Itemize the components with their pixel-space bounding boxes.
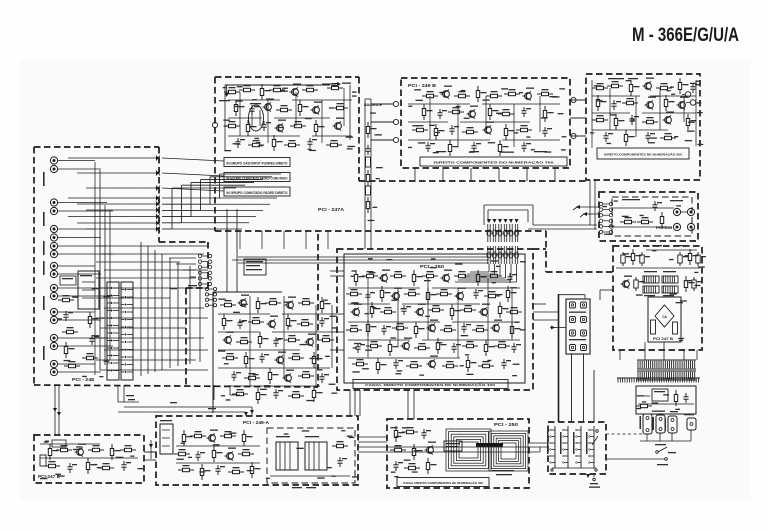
wire G right to M long [358,446,548,448]
annotation mark [496,113,503,114]
component in PCI-249A [212,446,222,462]
component in PCI-250 [442,361,458,368]
wire vertical bus in PCI-248 [177,262,179,366]
annotation mark [396,370,402,371]
annotation mark [674,136,678,137]
component in PCI-247D [56,445,72,452]
component in PCI-250 [366,341,382,348]
component in block C [645,132,655,142]
component in amp cluster [236,337,252,344]
annotation mark [376,167,383,168]
text AUX [43,241,45,255]
annotation mark [76,446,82,447]
annotation mark [319,369,323,370]
boundary crossing arrow [156,214,160,219]
speaker switch board border [548,422,606,474]
switch wafer 2 [560,426,568,468]
component in amp cluster [244,373,260,380]
input RCA jack [50,284,57,291]
annotation mark [352,371,359,372]
component in PCI-247A [290,121,306,128]
component in PCI-250 [460,305,476,312]
switch wafer 3 [573,426,581,468]
wire jack lead [58,363,95,365]
annotation mark [676,302,683,303]
wire cluster to PCI-250 [330,314,344,350]
component in PCI-248 [63,311,73,321]
annotation mark [341,430,345,431]
PCB block PCI-247D border [34,435,144,483]
label PCI-247D [38,474,60,479]
component in PCI-249A [220,431,236,438]
component in PCI-250 [415,304,427,317]
annotation mark [309,150,316,151]
component in amp cluster [238,295,250,308]
wire jack lead [58,245,107,247]
wire below E run1 [124,407,254,416]
component in amp cluster [232,389,248,396]
component in PCI-247D [110,444,120,460]
component in PCI-248 [62,327,78,334]
component in PCI-250 [427,356,439,369]
component in PCI-249A [174,449,190,456]
wire horizontal in PCI-248 [100,287,208,289]
text OUT POWER bottom [589,483,600,488]
fusible resistor FR-904 [662,286,678,296]
RCA jack out R [673,223,680,230]
boundary crossing arrow [156,208,160,213]
annotation mark [558,113,564,114]
annotation mark [544,151,551,152]
switch contact right [592,430,598,445]
component in PCI-247D [67,463,77,473]
PCB boundary notch [159,242,208,385]
annotation mark [663,394,669,395]
annotation mark [348,146,355,147]
connector circle on A left edge [212,122,217,127]
component in amp cluster [231,371,241,381]
component in PCI-249B [462,127,478,134]
annotation mark [99,376,103,377]
component in block C [614,114,624,130]
annotation mark [253,374,259,375]
relay label bar 1 (IN GRUPO ...) [224,158,290,167]
input RCA jack [50,360,57,367]
wire staircase run right [201,209,264,211]
component in amp cluster [268,368,278,384]
svg-text:IN GRUPO CASI INPUT FUORES DIR: IN GRUPO CASI INPUT FUORES DIRETO [227,161,288,165]
selector switch column 2 [121,282,133,380]
annotation mark [680,300,687,301]
wire balance to H [365,225,371,249]
annotation mark [325,356,330,357]
power switch SW-901 [655,444,676,460]
annotation mark [239,321,245,322]
annotation mark [561,149,566,150]
wire horizontal in PCI-248 [104,349,208,351]
component in PCI-248 [82,353,98,360]
wire C internal verticals [592,80,696,148]
component in PCI-247A [248,140,264,147]
annotation mark [309,358,316,359]
label bar PCI-250 (CANAL DIREITO COMPONENTES DE NUMERACAO 400) [353,380,508,389]
label PCI-249A [243,420,269,425]
annotation mark [466,374,473,375]
annotation mark [104,361,110,362]
display window [476,443,503,447]
annotation mark [365,313,370,314]
wire jack lead [58,210,113,212]
annotation mark [92,335,99,336]
wire staircase step [162,185,245,223]
annotation mark [278,127,284,128]
wire jack lead [58,160,95,162]
component in amp cluster [244,352,254,368]
component in block C [656,83,672,90]
annotation mark [698,266,705,267]
component in PCI-247A [314,120,324,136]
PCB block PCI-249B border [401,78,570,168]
annotation mark [300,344,307,345]
wire J top loop [559,295,585,299]
wire vertical bus in PCI-248 [154,250,156,372]
component in PCI-250 [510,322,520,338]
component in PCI-250 [391,288,403,301]
svg-text:IN GRUPO COMUTADO FADED DIRETO: IN GRUPO COMUTADO FADED DIRETO [227,191,288,195]
wire long verticals to cluster [227,209,237,292]
annotation mark [513,364,520,365]
component in amp cluster [320,297,330,313]
component in PCI-247A [290,84,302,97]
annotation mark [492,282,496,283]
wire K bottom drops [620,342,697,360]
wire E to F pair [53,385,61,435]
wire rows in block C [592,88,696,137]
annotation mark [594,85,601,86]
wire M bottom exit [586,474,595,481]
component in block C [624,130,634,146]
wire outlets bus [640,430,691,441]
component in PCI-250 display [390,445,406,452]
wire to bar 2 [162,173,224,176]
wire jack lead [58,202,107,204]
muting option box [244,259,266,275]
component in amp cluster [223,332,235,345]
annotation mark [514,132,518,133]
component in PCI-247D [86,458,96,474]
capacitor in power supply [678,252,688,266]
component in PCI-250 [388,340,398,356]
annotation mark [346,137,353,138]
wire loop to right [528,225,597,229]
annotation mark [648,142,655,143]
annotation mark [97,467,102,468]
annotation mark [64,360,71,361]
component in block C [622,98,638,105]
component in PCI-247A [235,138,245,148]
component in amp cluster [305,334,317,347]
svg-text:PCI - 249-A: PCI - 249-A [243,420,269,425]
component in PCI-250 [451,343,461,353]
annotation mark [395,373,401,374]
annotation mark [327,467,332,468]
component in PCI-247A [269,85,285,92]
annotation mark [284,302,288,303]
dashed corner right of H [533,249,613,272]
component in block C [678,78,688,94]
annotation mark [347,436,353,437]
component in PCI-249A [250,462,260,478]
annotation mark [412,125,419,126]
wire rows PCI-247D [40,444,138,458]
component in PCI-250 [406,361,422,368]
annotation mark [455,263,462,264]
component in PCI-249B [521,107,531,117]
annotation mark [460,365,464,366]
text FONO 1 [43,212,45,226]
component in block C [690,83,700,93]
component in PCI-247A [272,135,282,151]
input RCA jack [50,316,57,323]
component in PCI-249A [200,464,210,480]
svg-text:PCI - 250: PCI - 250 [494,422,519,427]
input RCA jack [50,199,57,206]
annotation mark [696,81,701,82]
volume control box [78,271,99,309]
annotation mark [653,96,660,97]
wire horizontal in PCI-248 [96,359,196,361]
annotation mark [650,137,657,138]
wire jack lead [58,295,113,297]
wire A bottom drops [240,231,328,249]
wire horizontal in PCI-248 [100,253,204,255]
component in amp cluster [319,317,329,327]
wire vertical bus in PCI-248 [199,270,201,362]
input RCA jack [50,250,57,257]
power transformer primary [637,360,696,369]
component in PCI-249B [441,86,453,99]
annotation mark [247,470,253,471]
component in PCI-250 [473,289,483,299]
annotation mark [317,477,324,478]
input RCA jack [50,207,57,214]
annotation mark [223,120,230,121]
component in amp cluster [267,316,279,329]
component in amp cluster [286,314,296,330]
wire horizontal in PCI-248 [104,269,208,271]
annotation mark [254,138,259,139]
annotation mark [439,92,444,93]
wire rows in PCI-247A [228,88,352,143]
component in block C [592,115,608,122]
component in PCI-249B [486,91,502,98]
component in amp cluster [298,371,314,378]
component in PCI-250 [414,322,424,338]
component in PCI-250 [494,341,510,348]
component in amp cluster [259,353,269,363]
annotation mark [213,444,220,445]
wire horizontal in PCI-248 [96,261,180,263]
component in PCI-248 [64,361,80,368]
wire vertical bus in PCI-248 [189,266,191,364]
component in PCI-249B [504,124,514,140]
fusible resistor FR-901 [643,271,659,283]
component in PCI-250 [462,341,478,348]
label PCI-247B [653,337,674,341]
component in PCI-250 [479,304,491,317]
component in block C [629,80,639,96]
component in PCI-250 display [393,461,403,471]
input RCA jack [50,308,57,315]
bridge rectifier CA [655,305,674,327]
wire to bar 3 [162,188,224,191]
wire G right to I [358,437,387,442]
component in PCI-250 [379,270,391,283]
component in PCI-250 [466,356,476,372]
wire E exit CN [118,385,139,402]
component in PCI-249B [437,109,447,119]
component in PCI-249B [537,89,553,96]
component in PCI-250 [354,270,364,286]
component in PCI-249B [476,86,486,102]
electrolytic C-901 [651,320,656,334]
wire dashdot M to outlets [606,433,643,435]
wire signal bus horizontal [77,172,156,174]
annotation mark [224,363,229,364]
wire I to H verticals [408,390,414,419]
component in PCI-247A [224,87,240,94]
title text M-366E/G/U/A [632,24,739,46]
component in PCI-248 [64,342,74,358]
component in amp cluster [288,391,304,398]
component in PCI-247A [275,120,287,133]
svg-text:DIREITO COMPONENTES DO NUME: DIREITO COMPONENTES DO NUMERAÇÃO 700 [434,160,554,165]
component in PCI-250 [506,307,522,314]
wire horizontal in PCI-248 [100,327,186,329]
relay in power board [652,389,668,401]
annotation mark [93,464,97,465]
annotation mark [130,456,134,457]
input RCA jack [50,334,57,341]
connector pin pair CN [503,219,507,264]
wire jack lead [58,371,101,373]
component in block C [611,100,621,110]
annotation mark [671,94,675,95]
wire jack bus vertical [95,162,110,375]
annotation mark [418,142,425,143]
annotation mark [436,342,443,343]
annotation mark [181,443,186,444]
annotation mark [688,122,695,123]
annotation mark [482,99,489,100]
svg-text:PCI - 249 B: PCI - 249 B [408,83,437,88]
annotation mark [387,259,393,260]
annotation mark [429,125,435,126]
svg-text:PCI 247 B: PCI 247 B [653,337,674,341]
annotation mark [433,152,439,153]
annotation mark [104,296,111,297]
wire rows PCI-249A [176,446,350,476]
component in PCI-247A [246,120,256,136]
annotation mark [258,145,263,146]
wire arrow into J [550,326,566,330]
wire into D with arrow 1 [573,205,599,210]
component in PCI-250 display [402,427,418,434]
wire F to G [144,452,156,460]
text FONO 2 [43,172,45,186]
wire long mid horizontals [330,271,344,276]
annotation mark [353,347,357,348]
component in PCI-250 [365,291,375,301]
component in PCI-247A [327,83,343,90]
text SISTEMA B [569,339,586,340]
wire jack lead [58,253,113,255]
annotation mark [435,132,440,133]
annotation mark [368,220,375,221]
annotation mark [82,376,87,377]
annotation mark [218,350,225,351]
wire staircase step [162,188,236,229]
component in PCI-250 display [404,463,420,470]
small box in F [40,440,66,466]
component in PCI-249A [178,465,194,472]
annotation mark [562,136,567,137]
annotation mark [308,149,312,150]
label PCI-250 (display board) [494,422,519,427]
input RCA jack [50,225,57,232]
annotation mark [669,293,676,294]
component in PCI-250 [401,305,411,315]
component in PCI-249B [467,106,479,119]
capacitor in power supply [696,252,706,266]
connector pin pair CN [492,219,496,264]
component in PCI-247A [261,121,271,131]
relay label bar 2 [224,173,290,182]
text SISTEMA A [569,312,586,313]
wire rows in PCI-249B [408,96,560,147]
component in PCI-249B [483,122,495,135]
wire rows power supply [616,245,700,268]
RCA jack pre-out L [687,208,694,215]
component in PCI-250 [366,320,376,336]
component in block C [686,114,696,130]
annotation mark [302,430,309,431]
wire jack lead [58,237,101,239]
component in PCI-250 display [426,458,436,474]
component in PCI-247A [239,85,255,92]
component in amp cluster [297,319,313,326]
annotation mark [636,294,643,295]
wire staircase step [162,174,281,198]
connector pin pair CN [487,219,491,264]
input RCA jack [50,342,57,349]
component in PCI-249A [207,430,219,443]
connector circles left of PCI-249B [393,101,398,142]
annotation mark [331,393,337,394]
ac power board border [636,386,696,414]
component in PCI-250 [414,343,430,350]
wire staircase run right [191,216,256,218]
annotation mark [659,226,666,227]
wire K left to J top [600,290,613,300]
relay label bar 3 [224,187,290,196]
component in amp cluster [318,335,334,342]
annotation mark [256,142,261,143]
component in PCI-250 [346,325,362,332]
component in amp cluster [256,388,266,404]
capacitor in power supply [692,277,702,291]
components in block D [620,212,664,228]
